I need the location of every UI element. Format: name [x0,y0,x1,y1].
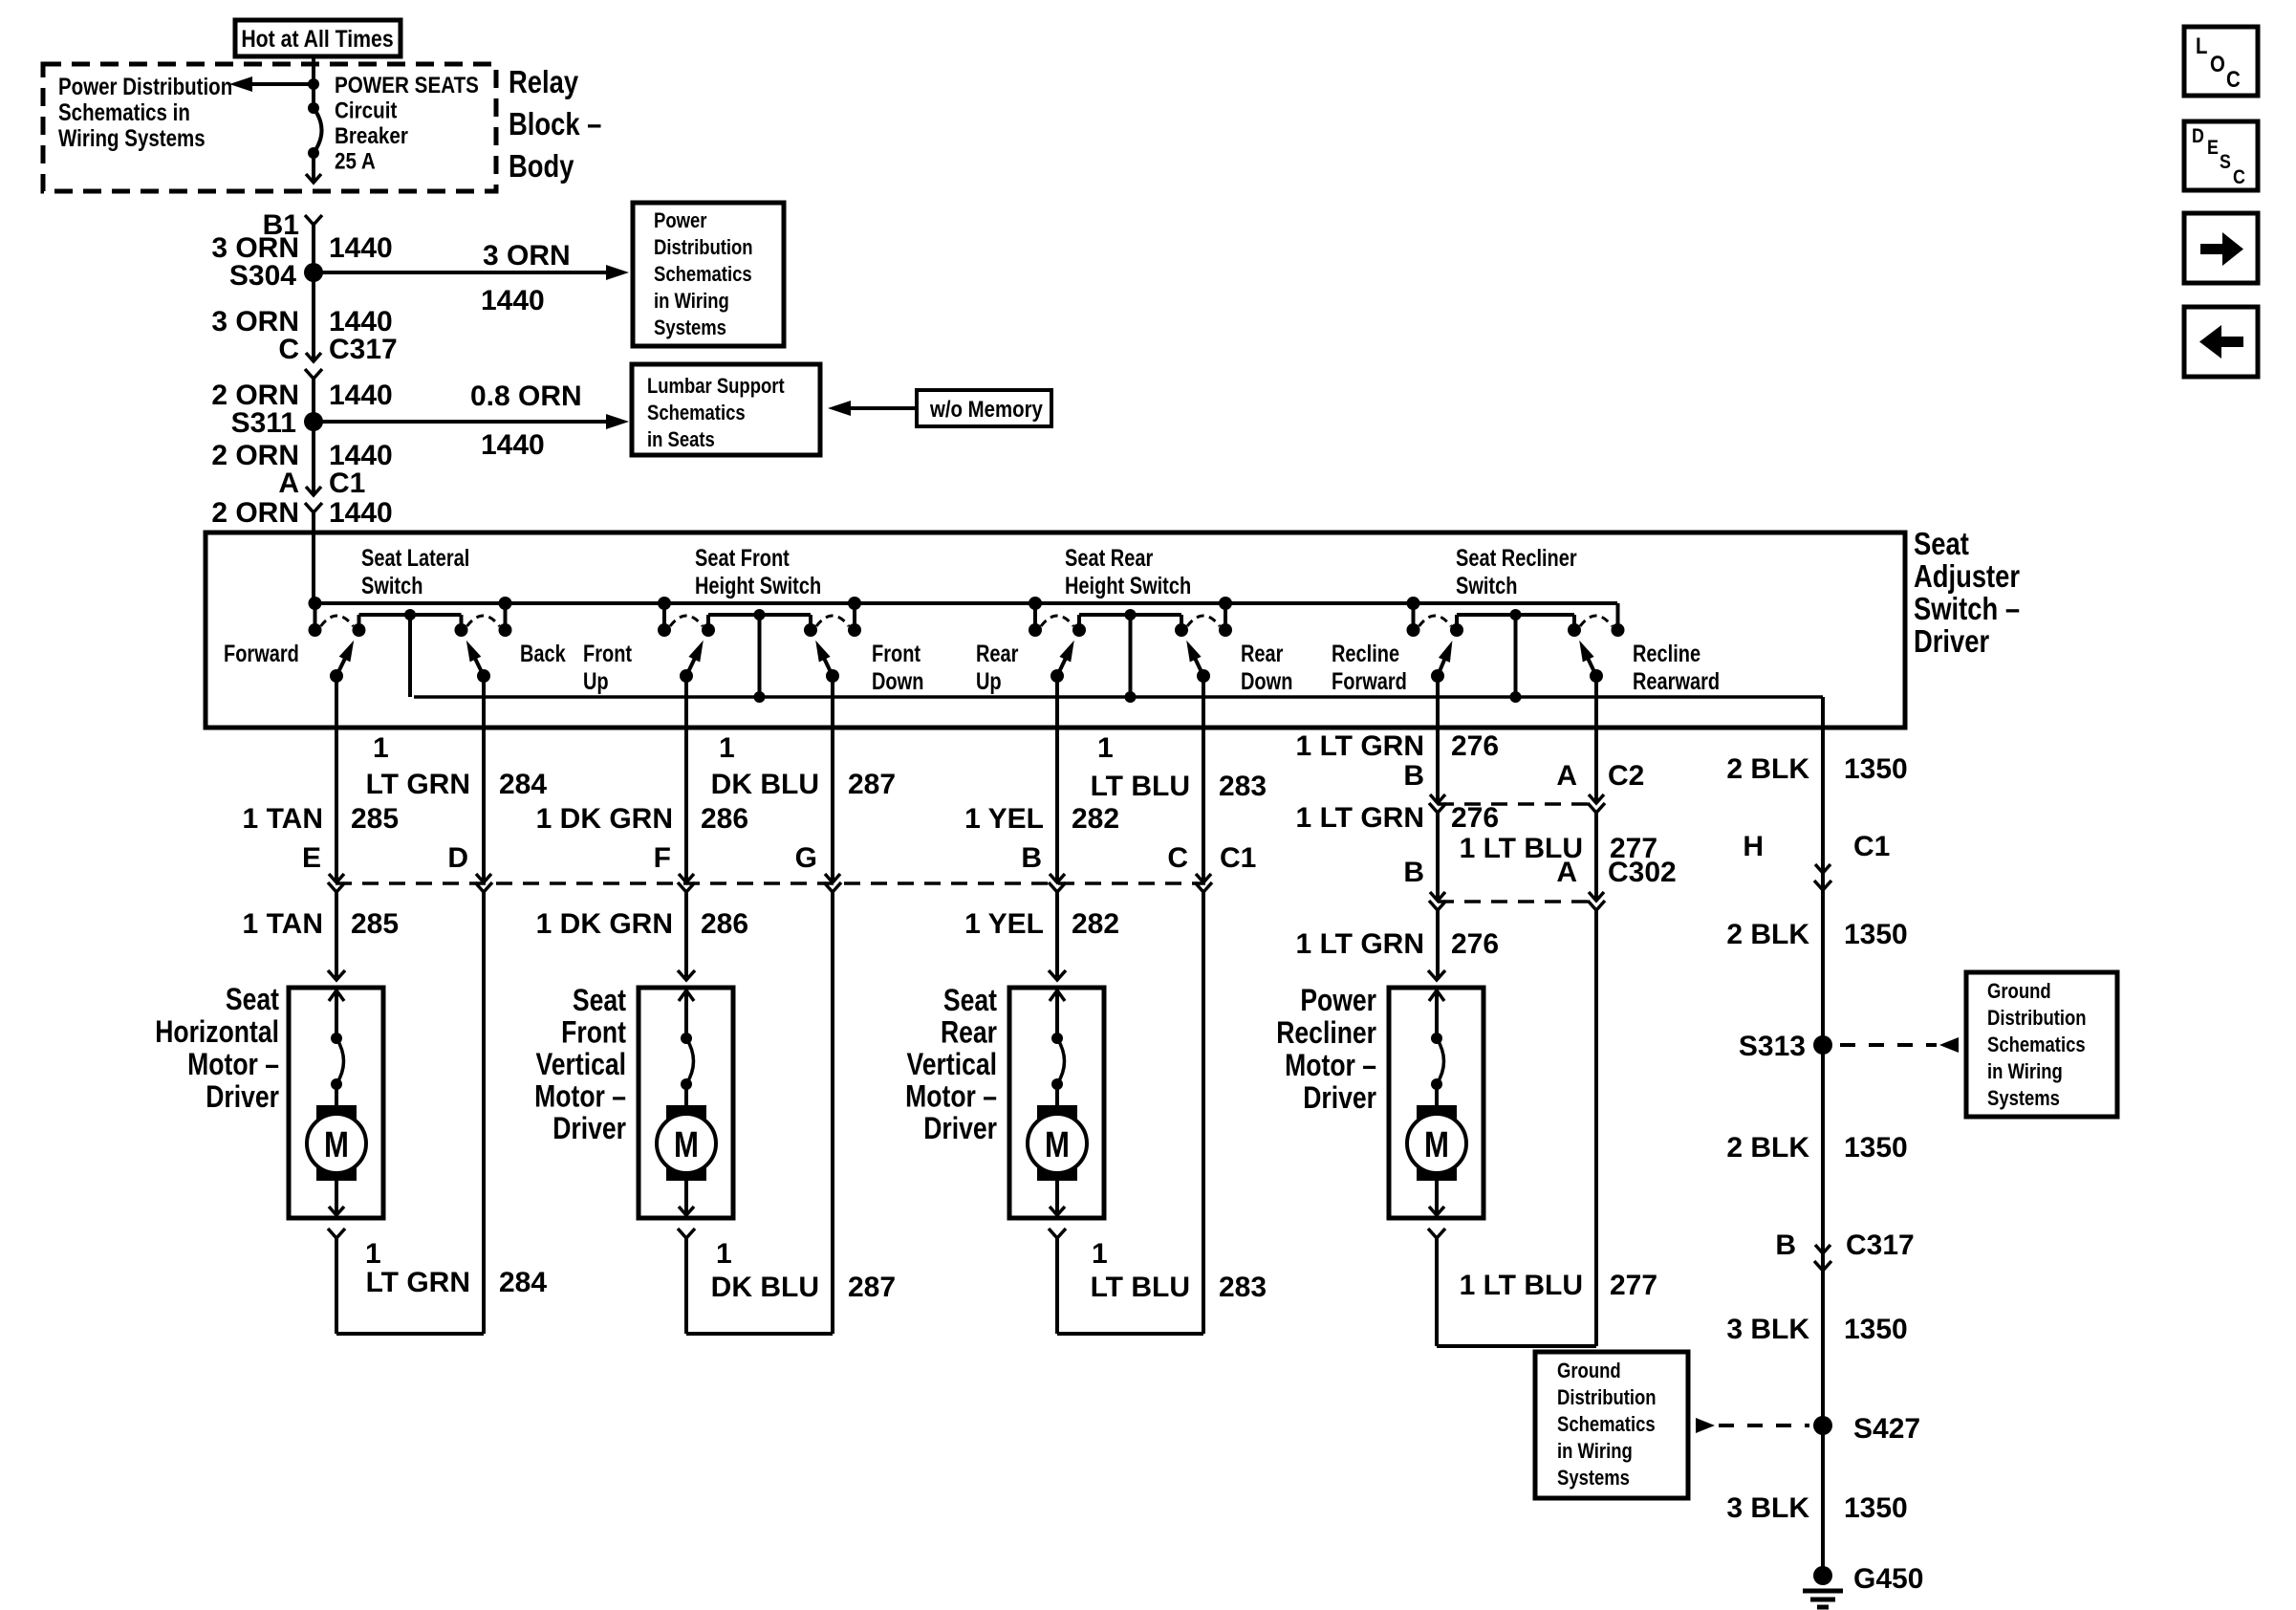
svg-text:D: D [2192,125,2204,148]
connector crossing C1 pin B arrows [1050,874,1065,882]
icon box right arrow [2184,213,2258,283]
svg-text:Motor –: Motor – [905,1079,997,1114]
connector crossing C1 pin A arrows [306,487,321,495]
svg-text:w/o Memory: w/o Memory [929,396,1043,422]
svg-text:in Wiring: in Wiring [1987,1061,2063,1084]
svg-text:DK BLU: DK BLU [711,1272,819,1303]
svg-text:1 TAN: 1 TAN [243,803,323,835]
wire: motor to box bottom [1435,1181,1439,1216]
motor internal breaker [1431,1033,1442,1044]
svg-text:S304: S304 [229,260,296,292]
motor M symbol [1037,1105,1077,1181]
connector crossing C302 pin B arrows [1430,892,1445,901]
svg-text:Seat Front: Seat Front [695,545,790,572]
svg-text:A: A [1556,857,1577,888]
svg-text:Wiring Systems: Wiring Systems [58,124,206,151]
svg-text:Systems: Systems [1987,1088,2060,1111]
svg-text:Driver: Driver [1914,625,1989,660]
wire: motor to box bottom [684,1181,688,1216]
svg-text:1 LT GRN: 1 LT GRN [1296,928,1424,960]
svg-text:M: M [1045,1125,1070,1165]
svg-text:Recline: Recline [1332,641,1399,667]
svg-text:Motor –: Motor – [1285,1049,1376,1083]
wire: recliner pole wire H below box [1594,728,1598,802]
svg-text:1 TAN: 1 TAN [243,908,323,940]
wire: bridge center tap [408,615,412,697]
svg-text:in Wiring: in Wiring [1557,1441,1633,1464]
svg-text:Front: Front [583,641,632,667]
wire: pole wire inside switch box [482,676,486,728]
svg-text:Schematics: Schematics [1557,1414,1656,1437]
svg-text:Motor –: Motor – [534,1079,626,1114]
wire: S311 down to C1 [312,422,315,495]
svg-text:Motor –: Motor – [187,1048,279,1082]
wire: motor return loop [335,1238,338,1334]
svg-text:283: 283 [1219,771,1267,802]
connector crossing C2 pin B arrows [1430,794,1445,803]
wire: H between C2 and C302 [1594,813,1598,900]
svg-text:Schematics in: Schematics in [58,98,190,125]
switch pole wiper arrow [1197,669,1210,683]
svg-text:Horizontal: Horizontal [155,1015,279,1050]
svg-text:3 ORN: 3 ORN [483,240,571,272]
svg-text:1: 1 [365,1238,381,1270]
switch: Seat Rear Height Switch contacts and bridge [1033,603,1037,630]
dashed arc mechanical link (right) [467,616,500,626]
svg-text:1440: 1440 [481,429,545,461]
connector crossing C1 pin C arrows [1196,874,1211,882]
svg-text:Front: Front [561,1015,626,1050]
svg-text:Systems: Systems [654,317,726,340]
svg-text:C317: C317 [1846,1229,1915,1261]
svg-text:Breaker: Breaker [335,123,408,149]
svg-text:C: C [1167,842,1188,874]
connector crossing C2 pin A arrows [1589,794,1604,803]
svg-text:277: 277 [1610,1270,1657,1301]
ref box: Power Distribution Schematics in Wiring Systems [633,203,784,346]
svg-text:284: 284 [499,769,547,800]
svg-text:Vertical: Vertical [907,1048,997,1082]
svg-text:Up: Up [976,668,1002,695]
motor internal breaker [681,1033,692,1044]
connector C2 dashed line [1438,802,1596,806]
svg-text:O: O [2210,51,2225,76]
svg-text:C2: C2 [1608,760,1644,792]
component box: Seat Adjuster Switch - Driver [206,533,1905,728]
svg-text:Recline: Recline [1633,641,1700,667]
svg-text:Rearward: Rearward [1633,668,1720,695]
svg-text:Rear: Rear [976,641,1019,667]
svg-text:1: 1 [373,732,389,764]
wire: motor2 return loop to switch wire 287 [686,1332,833,1336]
wire: pole wire inside switch box [831,676,834,728]
svg-text:285: 285 [351,803,399,835]
wire leaving motor (bottom chevron) [1049,1229,1066,1238]
svg-text:Driver: Driver [923,1112,997,1146]
svg-text:Seat: Seat [943,984,997,1018]
svg-text:1 LT BLU: 1 LT BLU [1460,1270,1583,1301]
svg-text:H: H [1743,831,1764,862]
svg-text:Power: Power [1300,984,1376,1018]
svg-text:Relay: Relay [509,66,578,100]
switch pole wiper arrow [680,669,693,683]
wire: pole wire inside switch box [1055,676,1059,728]
svg-text:Ground: Ground [1557,1360,1621,1383]
wire: common return bus of switch centers [414,695,1823,699]
svg-text:Back: Back [520,641,566,667]
splice S311 [304,412,323,431]
svg-text:Seat: Seat [573,984,626,1018]
wire: motor internal feed [684,988,688,1038]
switch pole wiper arrow [826,669,839,683]
wire: ground wire 2 BLK 1350 from switch box to G450 [1821,728,1825,1573]
wire into motor (top chevron) [1428,970,1445,980]
svg-text:Seat: Seat [1914,528,1969,562]
svg-text:0.8 ORN: 0.8 ORN [470,381,582,412]
svg-text:1 LT GRN: 1 LT GRN [1296,802,1424,834]
svg-text:2 ORN: 2 ORN [211,497,299,529]
wire: return bus down to ground wire [1821,697,1825,728]
wire: motor internal feed [1055,988,1059,1038]
svg-text:Power Distribution: Power Distribution [58,73,232,99]
svg-text:E: E [302,842,321,874]
svg-text:25 A: 25 A [335,148,376,174]
dashed reference link Ground Distribution box to S427 [1696,1418,1715,1433]
svg-text:283: 283 [1219,1272,1267,1303]
motor box: Power Recliner Motor &#8211; Driver [1389,988,1484,1218]
node: junction at circuit breaker feed [308,78,319,90]
switch pole wiper arrow [1051,669,1064,683]
wire: switch wires from C1 to motors [335,892,338,977]
svg-text:S: S [2220,151,2231,174]
wire: pole wire inside switch box [1436,676,1440,728]
svg-text:1350: 1350 [1844,1492,1908,1524]
svg-text:C: C [2226,66,2241,92]
switch pole wiper arrow [477,669,490,683]
label box: Hot at All Times [235,20,401,56]
svg-text:LT BLU: LT BLU [1091,771,1190,802]
wire: pole wire inside switch box [335,676,338,728]
svg-text:Seat Lateral: Seat Lateral [361,545,469,572]
svg-text:Hot at All Times: Hot at All Times [241,25,393,52]
wire: motor return loop [684,1238,688,1334]
svg-text:C317: C317 [329,334,398,365]
connector crossing C1 pin F arrows [679,874,694,882]
svg-text:Driver: Driver [206,1080,279,1115]
svg-text:1440: 1440 [329,497,393,529]
motor M symbol [1417,1105,1457,1181]
svg-text:Block –: Block – [509,108,601,142]
wire leaving motor (bottom chevron) [1428,1229,1445,1238]
switch: Seat Recliner Switch contacts and bridge [1412,603,1416,630]
svg-text:276: 276 [1451,802,1499,834]
motor M symbol [316,1105,357,1181]
svg-text:C1: C1 [1220,842,1256,874]
ref box: Ground Distribution Schematics in Wiring Systems (right) [1966,972,2117,1117]
dashed reference link S313 to Ground Distribution box [1840,1043,1937,1047]
svg-text:POWER SEATS: POWER SEATS [335,73,479,98]
motor M symbol [666,1105,706,1181]
svg-text:285: 285 [351,908,399,940]
svg-text:286: 286 [701,803,748,835]
svg-text:in Seats: in Seats [647,429,715,452]
svg-text:1: 1 [719,732,735,764]
wire: bridge center tap [1129,615,1133,697]
label box: w/o Memory [917,390,1051,426]
svg-text:Rear: Rear [1241,641,1284,667]
connector C302 dashed line [1438,900,1596,903]
wire: C317 to S311 [312,377,315,422]
svg-text:2 BLK: 2 BLK [1726,919,1809,950]
relay block body dashed outline [43,64,496,191]
wire: breaker output down to S304 [312,225,315,272]
icon box LOC [2184,27,2258,96]
wire: motor1 return loop to switch wire 284 [336,1332,484,1336]
svg-text:282: 282 [1072,908,1119,940]
svg-text:1350: 1350 [1844,753,1908,785]
switch pole wiper arrow [1590,669,1603,683]
svg-text:1: 1 [716,1238,732,1270]
svg-text:1350: 1350 [1844,919,1908,950]
svg-text:1350: 1350 [1844,1132,1908,1164]
svg-text:S427: S427 [1853,1413,1920,1445]
wire: battery feed from Hot at All Times into relay block [312,56,315,108]
svg-text:Body: Body [509,150,574,185]
svg-text:LT GRN: LT GRN [366,769,470,800]
wire leaving motor (bottom chevron) [678,1229,695,1238]
dashed arc mechanical link (right) [1580,616,1613,626]
svg-text:in Wiring: in Wiring [654,291,729,314]
splice S313 [1813,1035,1832,1055]
dashed arc mechanical link (left) [321,616,354,626]
connector crossing C1 pin G arrows [825,874,840,882]
ref box: Lumbar Support Schematics in Seats [632,364,820,455]
svg-text:1 LT GRN: 1 LT GRN [1296,730,1424,762]
svg-text:Up: Up [583,668,609,695]
wire: bridge center tap [758,615,762,697]
splice S427 [1813,1416,1832,1435]
svg-text:E: E [2207,137,2219,160]
svg-text:3 BLK: 3 BLK [1726,1492,1809,1524]
switch pole wiper arrow [1431,669,1444,683]
dashed arc mechanical link (left) [1041,616,1073,626]
svg-text:Front: Front [872,641,921,667]
wire: H from C302 down to motor4 loop [1594,910,1598,1346]
svg-text:M: M [324,1125,349,1165]
connector crossing C302 pin A arrows [1589,892,1604,901]
svg-text:Seat: Seat [226,983,279,1017]
svg-text:C1: C1 [329,468,365,499]
svg-text:2 BLK: 2 BLK [1726,753,1809,785]
svg-text:C1: C1 [1853,831,1890,862]
svg-text:LT BLU: LT BLU [1091,1272,1190,1303]
wire: pole wire inside switch box [1202,676,1205,728]
wire: motor return loop [1055,1238,1059,1334]
svg-text:287: 287 [848,769,896,800]
svg-text:Schematics: Schematics [654,264,752,287]
svg-text:1 DK GRN: 1 DK GRN [536,908,673,940]
wire: S304 down to C317 [312,272,315,361]
icon box left arrow [2184,307,2258,377]
svg-text:Vertical: Vertical [536,1048,626,1082]
svg-text:Height Switch: Height Switch [695,573,821,599]
svg-text:B: B [1021,842,1042,874]
svg-text:1440: 1440 [329,380,393,411]
wire: motor internal feed [335,988,338,1038]
svg-text:Switch –: Switch – [1914,593,2020,627]
wire: motor internal feed [1435,988,1439,1038]
svg-text:Distribution: Distribution [1557,1387,1657,1410]
connector crossing C1 pin H arrows [1815,864,1830,873]
wire: motor return loop [1435,1238,1439,1346]
svg-text:Switch: Switch [361,573,422,599]
svg-text:Seat Recliner: Seat Recliner [1456,545,1577,572]
svg-text:C: C [2233,166,2245,189]
svg-text:B: B [1403,857,1424,888]
svg-text:Down: Down [1241,668,1292,695]
svg-text:276: 276 [1451,730,1499,762]
svg-text:Circuit: Circuit [335,98,398,123]
icon box DESC [2184,121,2258,190]
connector crossing C317 pin B arrows [1815,1245,1830,1253]
svg-text:1 YEL: 1 YEL [964,803,1044,835]
splice S304 [304,263,323,282]
switch pole wiper arrow [330,669,343,683]
svg-text:A: A [1556,760,1577,792]
wire: 3 ORN 1440 branch to Power Distribution Schematics [314,271,608,274]
svg-text:Forward: Forward [1332,668,1407,695]
connector crossing C1 pin D arrows [476,874,491,882]
svg-text:282: 282 [1072,803,1119,835]
svg-text:1440: 1440 [481,285,545,316]
svg-text:C: C [278,334,299,365]
svg-text:M: M [1424,1125,1449,1165]
dashed arc mechanical link (left) [670,616,703,626]
svg-text:Down: Down [872,668,923,695]
dashed arc mechanical link (right) [816,616,849,626]
switch: Seat Lateral Switch contacts and bridge [314,603,317,630]
motor internal breaker [1051,1033,1063,1044]
switch: Seat Front Height Switch contacts and bridge [662,603,666,630]
svg-text:286: 286 [701,908,748,940]
svg-text:Recliner: Recliner [1276,1016,1376,1051]
svg-text:2 BLK: 2 BLK [1726,1132,1809,1164]
wire into motor (top chevron) [328,970,345,980]
svg-text:1440: 1440 [329,232,393,264]
dashed arc mechanical link (right) [1187,616,1220,626]
svg-text:S313: S313 [1739,1031,1806,1062]
wire: pole wire inside switch box [1594,676,1598,728]
svg-text:Adjuster: Adjuster [1914,560,2020,595]
wire: G from C302 to recliner motor [1436,910,1440,977]
svg-text:DK BLU: DK BLU [711,769,819,800]
svg-text:Distribution: Distribution [1987,1008,2087,1031]
svg-text:284: 284 [499,1267,547,1298]
svg-text:Lumbar Support: Lumbar Support [647,376,785,399]
wire: switch feed bus [314,601,1617,605]
svg-text:1: 1 [1097,732,1114,764]
wire: bridge center tap [1514,615,1518,697]
wire: 2 ORN 1440 into seat adjuster switch [312,511,315,603]
svg-text:Distribution: Distribution [654,237,753,260]
svg-text:Schematics: Schematics [647,402,746,425]
connector crossing C317 arrows [306,353,321,361]
wire into motor (top chevron) [678,970,695,980]
wire into motor (top chevron) [1049,970,1066,980]
motor box: Seat Rear Vertical Motor &#8211; Driver [1009,988,1104,1218]
svg-text:Forward: Forward [224,641,299,667]
svg-text:LT GRN: LT GRN [366,1267,470,1298]
svg-text:F: F [654,842,671,874]
svg-text:L: L [2196,33,2207,58]
svg-text:B: B [1775,1229,1796,1261]
svg-text:G: G [795,842,817,874]
wire: 0.8 ORN 1440 branch to Lumbar Support Schematics [314,420,608,424]
svg-text:1: 1 [1092,1238,1108,1270]
wire: motor to box bottom [1055,1181,1059,1216]
connector C1 dashed line [336,881,1205,885]
svg-text:Driver: Driver [552,1112,626,1146]
wire: G between C2 and C302 [1436,813,1440,900]
svg-text:Schematics: Schematics [1987,1034,2086,1057]
wire: pole wire inside switch box [684,676,688,728]
svg-text:M: M [674,1125,699,1165]
arrow to Power Distribution Schematics (left) [250,82,314,86]
wire leaving motor (bottom chevron) [328,1229,345,1238]
svg-text:Ground: Ground [1987,981,2051,1004]
ref box: Ground Distribution Schematics in Wiring Systems (lower) [1535,1352,1688,1498]
wire: motor4 return loop [1437,1344,1596,1348]
svg-text:1 DK GRN: 1 DK GRN [536,803,673,835]
svg-text:Switch: Switch [1456,573,1517,599]
arrow from w/o Memory to Lumbar box [847,406,917,410]
svg-text:Power: Power [654,210,706,233]
svg-text:B: B [1403,760,1424,792]
svg-text:1350: 1350 [1844,1314,1908,1345]
motor box: Seat Horizontal Motor &#8211; Driver [289,988,383,1218]
svg-text:D: D [447,842,468,874]
svg-text:3 BLK: 3 BLK [1726,1314,1809,1345]
connector crossing C1 pin E arrows [329,874,344,882]
svg-text:S311: S311 [231,407,296,439]
svg-text:1 YEL: 1 YEL [964,908,1044,940]
svg-text:Systems: Systems [1557,1468,1630,1490]
wire: recliner pole wire G below box [1436,728,1440,802]
svg-text:276: 276 [1451,928,1499,960]
dashed arc mechanical link (left) [1419,616,1452,626]
motor box: Seat Front Vertical Motor &#8211; Driver [639,988,733,1218]
connector leaving relay block (chevron) [305,215,322,225]
ground G450 [1813,1566,1832,1585]
wire: switch pole wires down to connector C1 [335,728,338,881]
svg-text:287: 287 [848,1272,896,1303]
svg-text:Rear: Rear [941,1015,997,1050]
svg-text:Driver: Driver [1303,1081,1376,1116]
wire: motor3 return loop to switch wire 283 [1057,1332,1203,1336]
svg-text:A: A [278,468,299,499]
svg-text:Seat Rear: Seat Rear [1065,545,1153,572]
svg-text:C302: C302 [1608,857,1677,888]
wire: motor to box bottom [335,1181,338,1216]
wire: circuit breaker output [312,153,315,183]
motor internal breaker [331,1033,342,1044]
circuit breaker CB symbol (POWER SEATS 25A) [308,102,319,114]
svg-text:Height Switch: Height Switch [1065,573,1191,599]
svg-text:G450: G450 [1853,1563,1923,1595]
